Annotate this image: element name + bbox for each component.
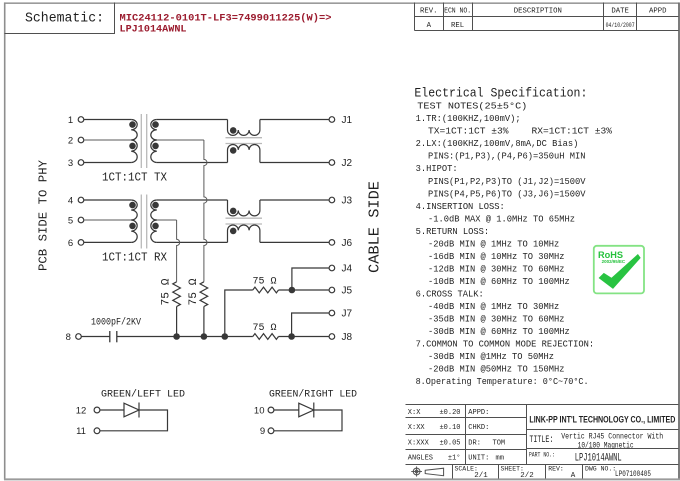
wire CM2 to J6 [260,241,329,243]
T2 secondary phase dots [152,202,159,209]
svg-text:11: 11 [76,426,86,437]
svg-text:5.RETURN LOSS:: 5.RETURN LOSS: [416,226,490,237]
svg-text:2.LX:(100KHZ,100mV,8mA,DC Bias: 2.LX:(100KHZ,100mV,8mA,DC Bias) [416,138,579,149]
node J3 [329,197,335,203]
svg-text:TOM: TOM [493,440,506,448]
svg-text:75 Ω: 75 Ω [253,276,277,288]
common-mode choke CM2 top winding [228,200,260,216]
svg-text:TEST NOTES(25±5°C): TEST NOTES(25±5°C) [417,101,527,112]
wire T1 centre tap [157,139,204,141]
node J2 [329,160,335,166]
svg-text:Schematic:: Schematic: [25,12,104,27]
junction R2/bus [201,333,208,340]
svg-text:TX=1CT:1CT ±3% RX=1CT:1CT ±: TX=1CT:1CT ±3% RX=1CT:1CT ±3% [428,126,612,137]
node J1 [329,117,335,123]
T1 secondary winding [151,119,157,140]
svg-text:REV:: REV: [548,466,564,473]
svg-text:-40dB MIN @ 1MHz TO 30MHz: -40dB MIN @ 1MHz TO 30MHz [428,301,559,312]
node J5 [329,287,335,293]
wire branch to J7 [292,313,330,337]
T1 secondary phase dots [152,121,159,128]
svg-text:ANGLES: ANGLES [408,455,433,463]
revision table [414,3,416,31]
node J6 [329,240,335,246]
wire pin2 to T1 [84,139,131,141]
svg-text:2/2: 2/2 [520,472,534,480]
wire pin8 to C1 [81,336,110,338]
wire T1 secondary top to choke CM1 [157,119,228,121]
CM2 bottom phase dot [230,228,237,235]
RoHS checkmark [599,254,641,289]
T2 secondary winding [151,200,157,220]
svg-text:7.COMMON TO COMMON MODE REJECT: 7.COMMON TO COMMON MODE REJECTION: [416,338,594,349]
svg-text:CABLE SIDE: CABLE SIDE [368,181,384,273]
svg-text:-1.0dB MAX @ 1.0MHz TO 65MHz: -1.0dB MAX @ 1.0MHz TO 65MHz [428,213,575,224]
CM2 bottom winding [228,225,260,242]
svg-text:GREEN/LEFT LED: GREEN/LEFT LED [101,389,185,401]
projection symbol [413,468,420,475]
transformer T2 (RX) primary winding [131,200,137,220]
wire T2 secondary bottom to choke CM2 [157,241,228,243]
svg-text:8: 8 [66,332,71,343]
wire R1 to bus [176,307,178,337]
wire CM2 to J3 [260,199,329,201]
LED D1 (green/left) [124,403,139,417]
node J4 [329,265,335,271]
wire CM1 to J2 [260,162,329,164]
svg-text:PINS(P1,P2,P3)TO (J1,J2)=1500V: PINS(P1,P2,P3)TO (J1,J2)=1500V [428,176,586,187]
wire pin12 to D1 [100,409,124,411]
svg-text:PCB SIDE TO PHY: PCB SIDE TO PHY [37,159,51,271]
wire pin10 to D2 [274,409,299,411]
svg-text:X:XX: X:XX [408,424,426,432]
capacitor C1 1000pF/2KV [109,331,111,342]
svg-text:UNIT:: UNIT: [468,455,489,463]
svg-text:DATE: DATE [611,8,629,16]
node J8 [329,334,335,340]
svg-text:6.CROSS TALK:: 6.CROSS TALK: [416,288,484,299]
svg-text:LP07100405: LP07100405 [615,470,651,479]
svg-text:TITLE:: TITLE: [529,434,553,445]
svg-text:4: 4 [68,195,73,206]
wire bus branch up to J5 line [225,290,253,337]
resistor R1 75ohm (RX tap) [173,282,181,307]
title block grid [406,404,679,406]
svg-text:-20dB MIN @50MHz TO 150MHz: -20dB MIN @50MHz TO 150MHz [428,363,565,374]
svg-text:CHKD:: CHKD: [468,424,489,432]
svg-text:3.HIPOT:: 3.HIPOT: [416,163,458,174]
wire R4 to J5 [279,289,330,291]
wire pin4 to T2 [84,199,131,201]
svg-text:1CT:1CT RX: 1CT:1CT RX [102,252,167,265]
junction J5-branch/bus [222,333,229,340]
svg-text:Vertic RJ45 Connector With: Vertic RJ45 Connector With [561,432,663,442]
bus wire C1 to R3 [117,336,253,338]
svg-text:-10dB MIN @ 60MHz TO 100MHz: -10dB MIN @ 60MHz TO 100MHz [428,276,570,287]
svg-text:LINK-PP INT'L TECHNOLOGY CO.,: LINK-PP INT'L TECHNOLOGY CO., LIMITED [529,415,675,425]
svg-text:J2: J2 [342,158,353,169]
junction R1/bus [173,333,180,340]
svg-text:-20dB MIN @ 1MHz TO 10MHz: -20dB MIN @ 1MHz TO 10MHz [428,238,559,249]
wire pin1 to T1 [84,119,131,121]
svg-text:DR:: DR: [468,440,481,448]
wire R2 to bus [203,307,205,337]
schematic title box [5,3,115,34]
svg-text:±0.05: ±0.05 [439,440,460,448]
svg-text:1: 1 [68,115,73,126]
wire TX centre tap drop (hops over crossing wires) [204,140,207,282]
svg-text:PINS:(P1,P3),(P4,P6)=350uH MIN: PINS:(P1,P3),(P4,P6)=350uH MIN [428,151,586,162]
node J7 [329,310,335,316]
svg-text:X:X: X:X [408,409,421,417]
svg-text:±0.20: ±0.20 [439,409,460,417]
svg-text:J4: J4 [342,264,353,275]
svg-text:9: 9 [260,426,265,437]
svg-text:04/10/2007: 04/10/2007 [606,22,635,29]
svg-text:-16dB MIN @ 10MHz TO 30MHz: -16dB MIN @ 10MHz TO 30MHz [428,251,565,262]
svg-text:1000pF/2KV: 1000pF/2KV [91,317,141,329]
wire T2 secondary top to choke CM2 [157,199,228,201]
junction J4-branch [289,287,296,294]
svg-text:A: A [571,472,576,480]
svg-text:mm: mm [496,455,504,463]
CM1 bottom phase dot [230,147,237,154]
wire R3 to J8 [279,336,330,338]
svg-text:10/100 Magnetic: 10/100 Magnetic [578,440,634,450]
svg-text:PINS(P4,P5,P6)TO (J3,J6)=1500V: PINS(P4,P5,P6)TO (J3,J6)=1500V [428,188,586,199]
svg-text:5: 5 [68,215,73,226]
T1 primary phase dots [129,121,136,128]
common-mode choke CM1 top winding [228,120,260,136]
svg-text:6: 6 [68,238,73,249]
svg-text:75 Ω: 75 Ω [253,322,277,334]
wire branch to J4 [292,268,329,290]
svg-text:-30dB MIN @1MHz TO 50MHz: -30dB MIN @1MHz TO 50MHz [428,351,554,362]
svg-text:J6: J6 [342,238,353,249]
svg-text:10: 10 [254,405,265,416]
svg-text:DESCRIPTION: DESCRIPTION [514,8,562,16]
T1 core [140,114,142,168]
wire pin3 to T1 [84,162,131,164]
svg-text:A: A [427,22,432,30]
CM2 core [226,217,263,219]
svg-text:Electrical Specification:: Electrical Specification: [414,86,587,101]
svg-text:75 Ω: 75 Ω [188,278,200,305]
svg-text:J1: J1 [342,115,353,126]
T2 core [140,195,142,249]
wire D2 loop to pin 9 [274,410,342,431]
svg-text:REL: REL [451,22,464,30]
wire pin5 to T2 [84,219,131,221]
svg-text:ECN NO.: ECN NO. [444,8,471,16]
CM1 core [226,137,263,139]
svg-text:REV.: REV. [420,8,438,16]
svg-text:3: 3 [68,158,73,169]
wire D1 loop to pin 11 [100,410,168,431]
resistor R4 75ohm (J5 line) [253,287,279,293]
svg-text:2/1: 2/1 [474,472,488,480]
svg-text:LPJ1014AWNL: LPJ1014AWNL [575,453,622,465]
CM1 top phase dot [230,127,237,134]
T2 primary phase dots [129,202,136,209]
wire pin6 to T2 [84,241,131,243]
RoHS logo box [594,246,644,294]
svg-text:±0.10: ±0.10 [439,424,460,432]
svg-text:PART NO.:: PART NO.: [529,451,555,458]
svg-text:APPD:: APPD: [468,409,489,417]
svg-text:±1°: ±1° [448,454,461,463]
resistor R2 75ohm (TX tap) [200,282,208,307]
svg-text:12: 12 [76,405,87,416]
LED D2 (green/right) [299,403,314,417]
resistor R3 75ohm (J8 line) [253,334,279,340]
wire T1 secondary bottom to choke CM1 [157,162,228,164]
junction J7-branch [288,333,295,340]
svg-text:J7: J7 [342,309,353,320]
svg-text:J8: J8 [342,332,353,343]
transformer T1 (TX) primary winding [131,119,137,140]
CM1 bottom winding [228,145,260,163]
svg-text:-12dB MIN @ 30MHz TO 60MHz: -12dB MIN @ 30MHz TO 60MHz [428,263,565,274]
svg-text:LPJ1014AWNL: LPJ1014AWNL [120,24,187,36]
wire CM1 to J1 [260,119,329,121]
border frame [4,2,680,4]
svg-text:APPD: APPD [649,8,667,16]
svg-text:DWG NO.:: DWG NO.: [585,466,616,473]
wire RX centre tap drop [177,220,180,282]
svg-text:X:XXX: X:XXX [408,440,430,448]
CM2 top phase dot [230,208,237,215]
svg-text:1.TR:(100KHZ,100mV);: 1.TR:(100KHZ,100mV); [416,113,521,124]
svg-text:1CT:1CT TX: 1CT:1CT TX [102,172,167,185]
svg-text:J5: J5 [342,286,353,297]
svg-text:GREEN/RIGHT LED: GREEN/RIGHT LED [269,389,357,401]
wire T2 centre tap [157,219,177,221]
svg-text:-30dB MIN @ 60MHz TO 100MHz: -30dB MIN @ 60MHz TO 100MHz [428,326,570,337]
svg-text:2002/95/EC: 2002/95/EC [602,259,626,264]
svg-text:-35dB MIN @ 30MHz TO 60MHz: -35dB MIN @ 30MHz TO 60MHz [428,313,565,324]
svg-text:J3: J3 [342,196,353,207]
svg-text:4.INSERTION LOSS:: 4.INSERTION LOSS: [416,201,505,212]
svg-text:75 Ω: 75 Ω [161,278,173,305]
svg-text:8.Operating Temperature: 0°C~7: 8.Operating Temperature: 0°C~70°C. [416,376,589,387]
svg-text:2: 2 [68,135,73,146]
